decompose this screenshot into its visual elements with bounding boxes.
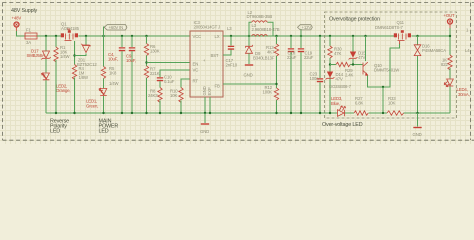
svg-text:10uF,: 10uF, — [126, 58, 136, 63]
svg-text:VCC: VCC — [193, 34, 202, 39]
svg-text:FB: FB — [215, 84, 220, 89]
svg-text:1/4W: 1/4W — [109, 81, 120, 86]
TVS diode D16 — [414, 36, 446, 113]
node C4 junction — [121, 35, 123, 37]
svg-text:100n: 100n — [310, 76, 320, 81]
diode D9 — [246, 36, 275, 64]
svg-text:+OUT: +OUT — [444, 13, 456, 18]
svg-text:47K: 47K — [334, 51, 341, 56]
svg-text:B340LB13F: B340LB13F — [253, 56, 275, 61]
zener Z01 — [77, 36, 97, 67]
transistor Q10 — [329, 62, 400, 89]
zener D14 — [326, 72, 344, 82]
svg-text:Blue,: Blue, — [331, 101, 340, 106]
svg-text:DMMT5401W: DMMT5401W — [374, 68, 400, 73]
capacitor C18 — [287, 36, 297, 113]
node base junction — [352, 63, 354, 65]
resistor R7 — [144, 66, 159, 113]
node Q10 collector junction — [364, 35, 366, 37]
frame dashed border — [3, 3, 474, 141]
node D9 junction — [248, 35, 250, 37]
svg-text:47V: 47V — [336, 77, 343, 82]
node +60V junction — [102, 35, 104, 37]
node C19 junction — [300, 35, 302, 37]
supply +OUT — [444, 13, 456, 24]
svg-text:20050414GT J: 20050414GT J — [194, 25, 221, 30]
svg-text:48V Supply: 48V Supply — [11, 8, 38, 14]
svg-text:GND: GND — [413, 132, 422, 137]
wire +OUT pin stub — [449, 24, 451, 29]
capacitor C10 — [157, 75, 175, 88]
svg-text:10K: 10K — [170, 93, 177, 98]
svg-text:LX: LX — [215, 34, 220, 39]
op-amp/regulator IC3 — [190, 20, 223, 97]
transistor Q1 (P-MOSFET inline) — [61, 22, 80, 41]
wire Q1 gate — [74, 41, 76, 65]
zener D15 — [349, 36, 367, 65]
node Z01 top — [85, 35, 87, 37]
svg-text:LED: LED — [50, 129, 60, 135]
svg-text:10K: 10K — [388, 101, 395, 106]
LED3 (inline) — [331, 96, 346, 116]
resistor R13 — [266, 36, 279, 113]
wire to +60V flag — [104, 27, 106, 36]
svg-text:24K3: 24K3 — [148, 93, 158, 98]
node R13 junction — [275, 35, 277, 37]
wire +OUT down — [449, 28, 451, 55]
svg-text:GND: GND — [244, 73, 253, 78]
svg-text:100K: 100K — [263, 90, 273, 95]
resistor R12 — [263, 85, 279, 100]
wire gate to zener — [75, 54, 87, 56]
rail junction nodes — [55, 112, 419, 114]
wire supply to fuse — [17, 31, 26, 36]
transistor Q11 (MOSFET inline) — [375, 20, 411, 44]
net flag +12V — [298, 25, 313, 30]
capacitor C23 — [310, 36, 324, 113]
svg-text:+12V: +12V — [302, 25, 312, 30]
svg-text:6.8K: 6.8K — [355, 101, 364, 106]
ground symbol left — [200, 113, 209, 134]
svg-text:DT9608B-35B: DT9608B-35B — [247, 14, 273, 19]
diode D17 — [27, 36, 51, 73]
wire IC GND pin — [204, 97, 206, 113]
svg-text:+60V IN: +60V IN — [109, 25, 124, 30]
svg-text:130K: 130K — [150, 49, 160, 54]
svg-text:GND: GND — [200, 129, 209, 134]
svg-text:1K8: 1K8 — [109, 71, 117, 76]
label main power led — [99, 119, 119, 135]
wire Q10 emitter down — [368, 44, 400, 88]
node R6 junction — [145, 35, 147, 37]
svg-text:822: 822 — [441, 62, 448, 67]
svg-text:2nF10: 2nF10 — [226, 63, 238, 68]
svg-text:1/8W: 1/8W — [79, 75, 90, 80]
svg-text:SMBJ58A: SMBJ58A — [27, 53, 45, 58]
wire Q10 collector — [365, 36, 367, 61]
svg-text:VC: VC — [193, 68, 199, 73]
node +OUT junction — [449, 35, 451, 37]
inductor L3 (inline) — [252, 23, 280, 36]
over-voltage protection dashed box — [325, 12, 457, 118]
svg-text:0.1uF: 0.1uF — [164, 79, 175, 84]
wire supply pin stub — [16, 27, 18, 32]
svg-text:4K7: 4K7 — [267, 50, 275, 55]
node D17 junction — [45, 35, 47, 37]
svg-text:22uF: 22uF — [287, 55, 297, 60]
node C18 junction — [290, 35, 292, 37]
svg-text:EN: EN — [193, 62, 199, 67]
node sense junction — [329, 63, 331, 65]
svg-text:BST: BST — [211, 53, 219, 58]
svg-text:RT: RT — [193, 79, 199, 84]
svg-text:F1: F1 — [26, 28, 31, 33]
node C9 junction — [131, 35, 133, 37]
svg-text:3A: 3A — [26, 40, 31, 45]
svg-text:10uF,: 10uF, — [108, 57, 118, 62]
fuse F1 — [25, 28, 37, 46]
ground under D9 — [244, 64, 254, 77]
wire fuse to Q1 — [37, 35, 61, 37]
resistor R33 (inline) — [387, 96, 404, 115]
svg-text:Orange,: Orange, — [56, 88, 70, 93]
wire EN — [147, 62, 191, 64]
capacitor C19 — [298, 36, 314, 113]
net flag +60V — [104, 25, 127, 30]
resistor R29 (horizontal) — [330, 62, 363, 77]
svg-text:2.4K: 2.4K — [345, 73, 354, 78]
node D15 junction — [352, 35, 354, 37]
wire to +12V flag — [300, 29, 302, 36]
resistor R1 — [54, 36, 71, 113]
svg-text:DO3SB08-7: DO3SB08-7 — [329, 84, 352, 89]
svg-text:DMN61D8TS-7: DMN61D8TS-7 — [375, 25, 403, 30]
svg-text:Green,: Green, — [86, 104, 98, 109]
svg-text:1/4W: 1/4W — [60, 54, 71, 59]
resistor R5 — [101, 36, 119, 88]
LED2 — [42, 73, 71, 113]
resistor R27 (inline) — [354, 96, 368, 115]
capacitor C17 — [226, 35, 238, 68]
ground symbol right — [413, 113, 422, 137]
node FB junction — [275, 83, 277, 85]
supply +48V — [12, 16, 22, 28]
svg-text:Over-voltage LED: Over-voltage LED — [322, 122, 363, 128]
svg-text:30mA,: 30mA, — [458, 92, 470, 97]
node Q10 out junction — [382, 86, 384, 88]
capacitor C4 — [108, 36, 125, 113]
svg-text:47V: 47V — [358, 55, 365, 60]
wire BST — [223, 50, 231, 56]
svg-text:22uF: 22uF — [304, 55, 314, 60]
LED1 — [86, 88, 107, 113]
svg-text:Overvoltage protection: Overvoltage protection — [329, 17, 380, 23]
wire Q11 to out — [412, 35, 451, 37]
svg-text:P4SMA58CA: P4SMA58CA — [422, 48, 446, 53]
svg-text:221K: 221K — [150, 71, 160, 76]
wire VC to C10 — [160, 70, 190, 77]
wire RT — [181, 79, 190, 88]
resistor R30 — [328, 36, 342, 113]
node gate junction — [73, 54, 75, 56]
resistor R10 — [170, 88, 183, 114]
wire junction to rail — [382, 87, 384, 113]
inductor L2 (top, parallel) — [247, 10, 274, 36]
resistor R26 — [441, 55, 452, 79]
wire LX output — [223, 35, 395, 37]
bottom ground rail — [46, 112, 338, 114]
LED4 — [444, 79, 469, 113]
svg-text:L4: L4 — [465, 48, 470, 53]
node R1 junction — [55, 35, 57, 37]
wire IC EXP pin — [209, 97, 211, 113]
svg-text:EXP: EXP — [207, 87, 212, 95]
wire Q1 to IC3 — [79, 35, 191, 37]
node EN junction — [145, 61, 147, 63]
node R30 junction — [329, 35, 331, 37]
resistor R6 — [144, 36, 159, 66]
svg-text:L3: L3 — [227, 26, 232, 31]
resistor R8 — [148, 88, 162, 114]
node D16 junction — [416, 35, 418, 37]
svg-text:LED: LED — [99, 129, 109, 135]
wire FB — [223, 83, 277, 85]
label reverse polarity led — [50, 119, 69, 135]
resistor R4 — [72, 65, 89, 114]
svg-text:+48V: +48V — [12, 16, 22, 21]
node C23 junction — [319, 35, 321, 37]
capacitor C9 — [126, 36, 136, 113]
svg-text:2.9608B18-47B: 2.9608B18-47B — [252, 27, 280, 32]
